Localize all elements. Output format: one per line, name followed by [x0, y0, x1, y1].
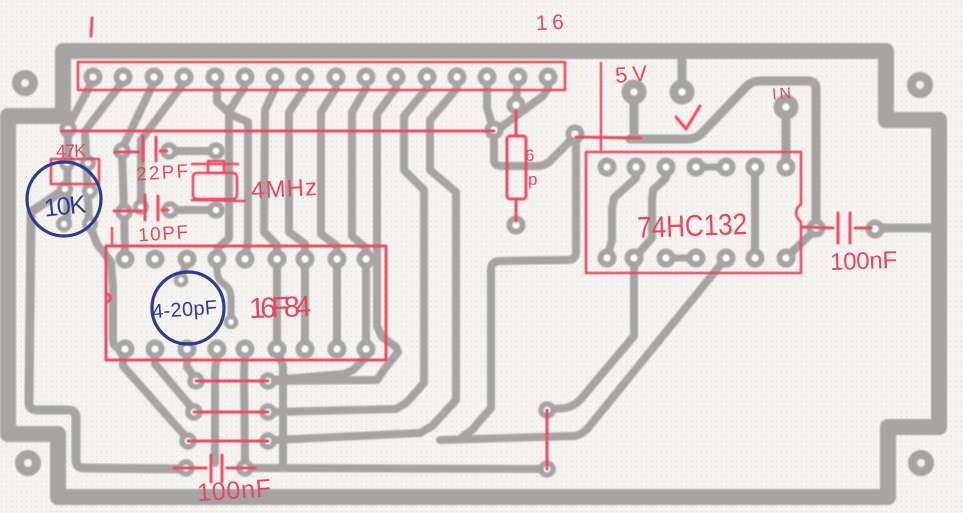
node B pad — [569, 128, 582, 141]
wire: IC pin3 bottom stub to jumper row1 left pad — [187, 352, 194, 377]
wire: IC inner trace stub pin3 area — [181, 262, 187, 278]
wire: ground stub from top bar to pad G — [678, 58, 687, 88]
red stub near 10pF — [111, 228, 113, 246]
wire: IC pin6 bottom stub to ground rail — [277, 350, 283, 467]
wire: pad7 down to IC pin6 — [264, 88, 277, 256]
47K pads — [62, 158, 73, 169]
wire: IC pin9 bottom chamfer to jumper pad row1 — [272, 352, 366, 380]
crystal top lead — [192, 163, 238, 166]
IC 16F84 top row pads — [119, 253, 373, 266]
wire: IC inner S-curve from pin4 top — [217, 262, 231, 318]
pad4 trace end pad — [136, 202, 147, 213]
svg-text:10PF: 10PF — [137, 222, 188, 246]
wire: pad11 down right of IC, chamfer to jumper pad row1 — [272, 88, 398, 381]
IC 74HC132 pin notch — [796, 204, 801, 222]
74HC132 bottom row pads — [601, 252, 793, 265]
wire: IC through trace pin8 — [333, 262, 341, 345]
resistor 47K outline — [51, 159, 99, 184]
wire: 47K right column vertical — [85, 132, 89, 222]
svg-text:IN: IN — [772, 85, 792, 103]
mounting hole top-right — [912, 77, 929, 94]
wire: 74HC inner pin2 top S to pin1 bottom — [608, 171, 636, 254]
wire: 22pF right pad link to crystal top — [169, 147, 216, 155]
wire: 100nF left pad diagonal to 74HC pin7 bottom — [790, 232, 813, 254]
right jumper pads — [541, 404, 553, 416]
resistor bottom pad D — [510, 219, 523, 232]
wire: left chain diagonal and staircase to bottom cap — [29, 189, 184, 469]
wire: pad1 diagonal to node A1 — [68, 80, 93, 127]
jumper wire 1 — [196, 380, 268, 383]
IN pad — [778, 99, 794, 115]
wire: pad15 down to resistor top pad C — [516, 88, 517, 103]
capacitor 100nF bottom symbol — [174, 455, 255, 482]
wire: pad9 down to IC pin8 — [321, 88, 337, 256]
jumper wire 2 — [194, 411, 268, 414]
wire: IC through trace pin9 — [362, 262, 370, 345]
wire: pad13 down, chamfer to jumper pad row3 — [274, 88, 457, 440]
wire: pad6 jog left down through crystal to IC pin4 — [217, 88, 244, 256]
svg-text:p: p — [528, 170, 537, 189]
wire: IC pin5 bottom vertical to bottom cap right pad — [244, 352, 245, 463]
wire: 22pF left pad down to 10pF left pad down to IC pin1 — [122, 151, 125, 256]
wire: 47K left column vertical — [67, 129, 68, 224]
svg-text:74HC132: 74HC132 — [637, 208, 748, 245]
wire: IC pin2 bottom diagonal to jumper row2 left pad — [155, 352, 192, 408]
connector pads 1-16 — [87, 71, 555, 84]
resistor top pad C — [510, 99, 523, 112]
blue circle 10K — [27, 162, 101, 236]
wire: IC pin1 bottom diagonal to jumper row3 left pad — [123, 352, 186, 437]
jumper wire 3 — [188, 440, 268, 443]
wire: 74HC bottom pads 3-4 link — [666, 255, 696, 262]
wire: pad4 diagonal then down — [141, 80, 186, 206]
bottom 100nF pads — [180, 462, 192, 474]
red vertical at x601 — [600, 63, 602, 152]
capacitor 100nF right symbol — [803, 213, 871, 243]
crystal bottom lead — [192, 200, 245, 201]
resistor 6p leads — [515, 111, 518, 221]
5V pad — [626, 84, 642, 100]
wire: 10pF right pad link to crystal bottom — [170, 206, 216, 214]
node A1 pad left column top — [62, 123, 74, 135]
blue circle 4-20pF — [152, 272, 224, 344]
jumper wire right vertical — [546, 410, 549, 469]
wire: pad3 diagonal to 22pF left pad — [122, 80, 155, 149]
wire: 5V feed trace to 100nF left pad — [630, 81, 816, 224]
IC 16F84 outline — [106, 246, 386, 360]
wire: bottom rail y437 from U3 to 74HC diagonal — [440, 263, 722, 440]
bus line 1 — [62, 130, 494, 133]
BLUE ANNOTATIONS — [27, 162, 224, 344]
svg-text:22PF: 22PF — [136, 161, 189, 186]
wire: right chain from 10K bottom to IC pin1 bottom — [90, 226, 127, 349]
10pF pads — [118, 206, 130, 218]
connector outline — [78, 62, 565, 90]
mounting hole top-left — [17, 75, 34, 92]
74HC132 top row pads — [601, 161, 793, 174]
checkmark under ground pad — [676, 106, 700, 129]
right 100nF pads — [810, 222, 823, 235]
22pF pads — [116, 145, 128, 157]
wire: node B down, left, down to bottom rail — [462, 138, 576, 437]
svg-text:4-20pF: 4-20pF — [151, 297, 217, 323]
wire: pad2 diagonal to 47K right column — [85, 80, 124, 131]
svg-text:10K: 10K — [43, 190, 88, 222]
capacitor 22pF symbol — [115, 136, 167, 161]
wire: 100nF right pad to right frame — [879, 224, 934, 233]
mounting hole bottom-left — [20, 455, 37, 472]
wire: pad10 down to IC pin9 — [352, 88, 366, 256]
pin 1 tick — [91, 18, 92, 36]
wire: node A S-bend to node B — [494, 133, 572, 166]
wire: pad16 diagonal to node A — [500, 88, 548, 128]
bus line 2 (node B to 5V stub) — [576, 137, 641, 138]
wire: 74HC pin2 bottom down-diagonal to red jumper top pad — [551, 262, 634, 409]
svg-text:100nF: 100nF — [830, 247, 898, 276]
svg-text:4MHz: 4MHz — [250, 174, 317, 204]
wire: 74HC top pads 4-5 link — [696, 164, 726, 171]
IC 16F84 pin1 notch — [106, 293, 111, 303]
capacitor 10pF symbol — [114, 195, 168, 220]
crystal top tab — [208, 161, 224, 173]
wire: IC through trace pin6 — [273, 262, 281, 345]
crystal terminal pads — [210, 145, 222, 157]
svg-text:100nF: 100nF — [196, 474, 272, 507]
ground pad G — [674, 84, 690, 100]
svg-text:16F84: 16F84 — [249, 291, 312, 325]
resistor 6p outline — [507, 136, 526, 199]
10K lower pads — [59, 219, 70, 230]
IC inner stub pads — [176, 275, 186, 285]
wire: bottom rail y469 from staircase cap to red jumper bottom pad — [245, 468, 543, 469]
wire: pad8 down to IC pin7 — [289, 88, 305, 256]
wire: pad5 jog right down to IC pin5 — [217, 88, 248, 256]
wire: IC through trace pin7 — [301, 262, 309, 345]
svg-text:47K: 47K — [56, 140, 87, 161]
wire: 74HC inner pin3 top S to pin2 bottom — [638, 171, 666, 254]
jumper pads mid-left — [190, 375, 202, 387]
crystal 4MHz outline — [193, 173, 237, 199]
node A pad — [488, 124, 501, 137]
wire: pad12 down, chamfer to jumper pad row2 — [272, 88, 427, 412]
wire: IN pad stub down to 74HC pin14 top — [782, 110, 791, 163]
IC 16F84 bottom row pads — [119, 343, 373, 356]
IC 74HC132 outline — [586, 152, 801, 273]
wire: pad14 down to node A — [487, 88, 492, 124]
PADS (gray rings, white centres) — [59, 71, 882, 476]
wire: IC pin4 bottom vertical to bottom cap — [215, 352, 217, 463]
svg-text:6: 6 — [525, 146, 534, 165]
RED ANNOTATION LAYER — [51, 18, 871, 482]
mounting hole bottom-right — [913, 455, 930, 472]
wire: 74HC pin6 vertical — [751, 171, 759, 254]
